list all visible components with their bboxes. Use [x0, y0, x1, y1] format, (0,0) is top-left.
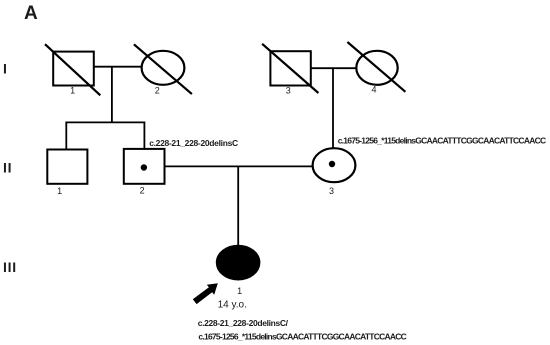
individual II-3 carrier female (circle with dot): [313, 148, 356, 196]
svg-text:2: 2: [155, 85, 160, 95]
svg-text:c.1675-1256_*115delinsGCAACATT: c.1675-1256_*115delinsGCAACATTTCGGCAACAT…: [338, 135, 546, 145]
individual II-2 carrier male (square with dot): [124, 149, 165, 196]
svg-text:c.1675-1256_*115delinsGCAACATT: c.1675-1256_*115delinsGCAACATTTCGGCAACAT…: [198, 331, 406, 341]
svg-text:1: 1: [57, 186, 62, 196]
individual II-1 male (square): [47, 150, 87, 197]
spouse line I-3/I-4: [311, 67, 357, 69]
svg-text:4: 4: [371, 85, 376, 95]
svg-text:1: 1: [237, 286, 242, 296]
svg-text:3: 3: [286, 86, 291, 96]
svg-text:2: 2: [140, 186, 145, 196]
individual I-4 deceased female (circle): [347, 42, 405, 95]
spouse line II-2/II-3: [165, 165, 313, 167]
descent line from couple II-2/II-3 to III-1: [237, 166, 239, 246]
descent line from couple I-3/I-4 to II-3: [332, 68, 334, 149]
proband arrow: [193, 283, 218, 304]
svg-text:c.228-21_228-20delinsC/: c.228-21_228-20delinsC/: [198, 318, 289, 328]
svg-text:A: A: [24, 3, 38, 24]
spouse line I-1/I-2: [94, 66, 142, 68]
drop line to II-1: [65, 122, 67, 150]
svg-text:I: I: [3, 61, 7, 77]
individual I-1 deceased male (square): [45, 44, 100, 95]
svg-text:II: II: [3, 160, 12, 176]
individual I-2 deceased female (circle): [134, 44, 192, 95]
individual III-1 affected female proband (filled circle): [216, 245, 260, 296]
individual I-3 deceased male (square): [262, 44, 318, 96]
svg-text:3: 3: [329, 186, 334, 196]
drop line to II-2: [143, 122, 145, 150]
svg-text:14 y.o.: 14 y.o.: [218, 299, 247, 310]
svg-text:1: 1: [70, 86, 75, 96]
svg-text:c.228-21_228-20delinsC: c.228-21_228-20delinsC: [149, 138, 238, 148]
svg-text:III: III: [3, 259, 17, 275]
sibship line generation II left: [65, 121, 145, 123]
descent line from couple I-1/I-2: [111, 67, 113, 123]
